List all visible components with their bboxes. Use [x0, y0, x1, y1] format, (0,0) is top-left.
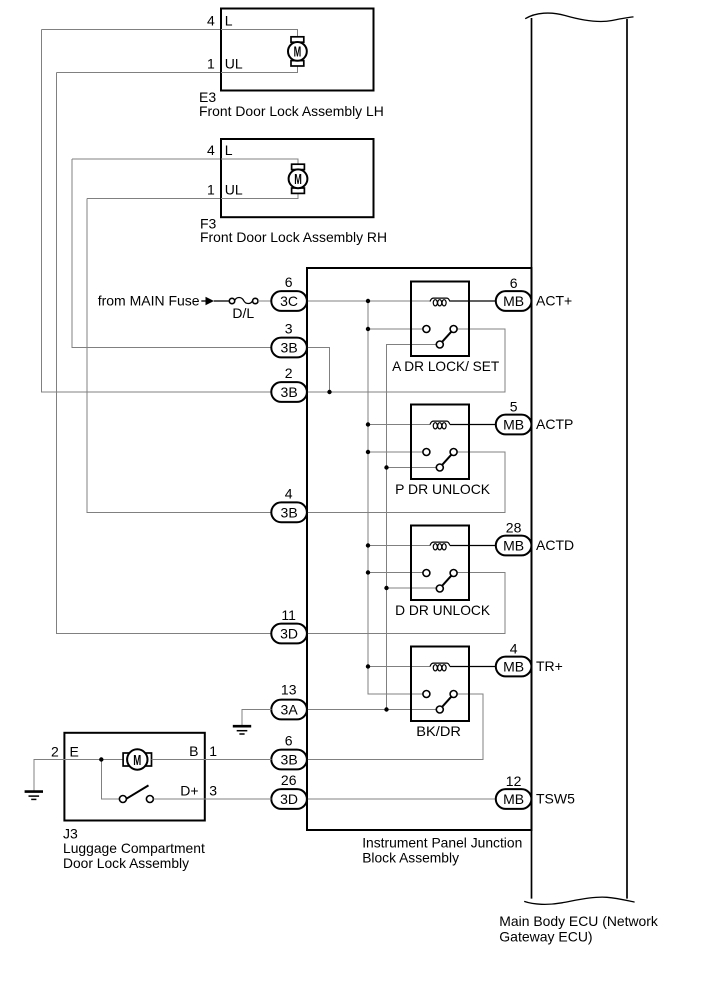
- wire net V4 vertical, F3-UL to 3B pin4 row: [87, 198, 271, 512]
- svg-text:28: 28: [506, 520, 522, 536]
- svg-text:4: 4: [285, 485, 293, 501]
- J3 switch contact right: [146, 796, 153, 803]
- wire net V1 vertical, E3-L to 3B pin2 row: [42, 30, 272, 393]
- relay A DR LOCK/SET box: [411, 282, 469, 357]
- svg-text:11: 11: [281, 607, 296, 623]
- relay D DR UNLOCK switch arm: [442, 576, 451, 586]
- J3 switch arm: [126, 785, 148, 798]
- relay P DR UNLOCK coil: [433, 423, 437, 429]
- connector 3B pin 3 oval: [271, 338, 307, 358]
- node bus vA / relay D coil junction dot: [366, 543, 370, 547]
- wire net V3 vertical, F3-L to 3B pin3 row: [72, 159, 271, 348]
- wire net V2 vertical, E3-UL to 3D pin11 row: [57, 72, 272, 633]
- connector MB pin 12 oval: [496, 789, 532, 809]
- wire F3 internal pin4 to motor top: [221, 159, 298, 164]
- svg-text:4: 4: [510, 641, 518, 657]
- relay P DR UNLOCK switch contact left: [423, 449, 430, 456]
- svg-text:ACTD: ACTD: [536, 537, 574, 553]
- svg-text:3A: 3A: [281, 702, 299, 718]
- motor J3 luggage door lock motor: [123, 753, 129, 766]
- wire 3B pin3 bend joining 3B pin2 row: [307, 348, 330, 393]
- svg-text:MB: MB: [503, 417, 524, 433]
- relay P DR UNLOCK switch common contact: [436, 464, 443, 471]
- wire stub vA to relay P left contact: [368, 451, 423, 453]
- svg-text:Instrument Panel Junction: Instrument Panel Junction: [362, 835, 522, 851]
- relay BK/DR switch contact left: [423, 691, 430, 698]
- fuse D/L right terminal: [253, 298, 258, 303]
- wire relay P coil to MB pin5 ACTP: [450, 424, 496, 426]
- wire stub vA to relay BK coil: [368, 666, 430, 668]
- svg-text:A DR LOCK/ SET: A DR LOCK/ SET: [392, 358, 500, 374]
- arrow from MAIN Fuse: [201, 300, 206, 302]
- wire stub vA to relay A left contact: [368, 328, 423, 330]
- node bus vA / relay A contact junction dot: [366, 327, 370, 331]
- svg-text:2: 2: [285, 365, 293, 381]
- wire F3 internal pin1 to motor bottom: [221, 194, 298, 199]
- wire bus vA vertical feeding coils and switch left contacts: [368, 301, 423, 694]
- svg-text:3C: 3C: [280, 293, 298, 309]
- Main Body ECU right edge: [626, 19, 628, 899]
- wire relay A common to bus vB: [387, 345, 437, 710]
- wire E3 internal pin1 to motor bottom: [221, 66, 297, 73]
- svg-text:Gateway ECU): Gateway ECU): [499, 929, 592, 945]
- svg-text:6: 6: [285, 733, 293, 749]
- svg-text:L: L: [225, 142, 233, 158]
- motor F3 door lock motor: [292, 164, 305, 169]
- node bus vB / relay D common junction dot: [384, 586, 388, 590]
- relay D DR UNLOCK box: [411, 526, 469, 601]
- wire 3A connector to ground: [242, 710, 271, 726]
- relay D DR UNLOCK switch contact left: [423, 570, 430, 577]
- relay BK/DR switch contact right: [450, 691, 457, 698]
- svg-text:3B: 3B: [281, 340, 298, 356]
- relay P DR UNLOCK box: [411, 405, 469, 480]
- connector MB pin 4 oval: [496, 657, 532, 677]
- node bus vA / relay P contact junction dot: [366, 450, 370, 454]
- svg-text:3D: 3D: [280, 791, 298, 807]
- wire relay BK coil to MB pin4 TR+: [450, 666, 496, 668]
- Main Body ECU wavy bottom edge: [524, 897, 634, 904]
- relay BK/DR box: [411, 647, 469, 722]
- node bus vA / relay D contact junction dot: [366, 570, 370, 574]
- svg-text:26: 26: [281, 772, 297, 788]
- relay BK/DR coil: [433, 665, 437, 671]
- svg-text:2: 2: [51, 744, 59, 760]
- svg-text:3B: 3B: [281, 752, 298, 768]
- wire stub vA to relay D left contact: [368, 572, 423, 574]
- wire 3C row: connector to relay A coil: [307, 300, 430, 302]
- ground at 3A pin13: [233, 725, 251, 728]
- svg-text:Main Body ECU (Network: Main Body ECU (Network: [499, 913, 659, 929]
- svg-text:M: M: [133, 753, 141, 769]
- svg-text:ACTP: ACTP: [536, 416, 573, 432]
- connector 3D pin 11 oval: [271, 624, 307, 644]
- wire stub vA to relay P coil: [368, 424, 430, 426]
- connector 3A pin 13 oval: [271, 700, 307, 720]
- wire J3 pin E to ground: [34, 760, 65, 792]
- node bus vB / 3A row junction dot: [384, 707, 388, 711]
- wire stub vA to relay D coil: [368, 545, 430, 547]
- node bus vB / relay P common junction dot: [384, 465, 388, 469]
- svg-text:1: 1: [207, 182, 215, 198]
- svg-text:1: 1: [207, 56, 215, 72]
- wire F3 pin4 L to net V3: [72, 158, 221, 160]
- J3 Luggage Compartment Door Lock Assembly box: [64, 733, 204, 821]
- wire 3A row: connector to relay BK common: [307, 709, 436, 711]
- wire relay D right contact to 3D pin11 row: [307, 573, 505, 634]
- wire stub vB to relay D common: [387, 587, 437, 589]
- relay A DR LOCK/SET switch contact right: [450, 326, 457, 333]
- svg-text:MB: MB: [503, 293, 524, 309]
- svg-text:B: B: [189, 743, 198, 759]
- svg-text:D DR UNLOCK: D DR UNLOCK: [395, 602, 491, 618]
- svg-text:M: M: [294, 44, 302, 60]
- connector 3B pin 4 oval: [271, 502, 307, 522]
- Main Body ECU wavy top edge: [525, 13, 633, 21]
- node 3B pin3 / 3B pin2 row junction dot: [327, 390, 331, 394]
- fuse D/L left terminal: [229, 298, 234, 303]
- svg-text:E: E: [70, 744, 79, 760]
- svg-text:6: 6: [285, 274, 293, 290]
- wire relay P right contact to 3B pin4 row: [307, 452, 505, 512]
- svg-text:3: 3: [285, 321, 293, 337]
- svg-text:ACT+: ACT+: [536, 293, 572, 309]
- wire stub vB to relay P common: [387, 467, 437, 469]
- E3 Front Door Lock Assembly LH box: [221, 9, 374, 91]
- Main Body ECU left edge: [531, 18, 533, 899]
- connector 3D pin 26 oval: [271, 789, 307, 809]
- wire J3 internal branch to switch: [101, 760, 119, 800]
- connector MB pin 6 oval: [496, 291, 532, 311]
- relay A DR LOCK/SET switch arm: [442, 332, 451, 342]
- svg-text:TR+: TR+: [536, 658, 563, 674]
- svg-text:M: M: [294, 172, 302, 188]
- svg-text:4: 4: [207, 13, 215, 29]
- connector MB pin 5 oval: [496, 415, 532, 435]
- svg-text:1: 1: [209, 743, 217, 759]
- motor E3 door lock motor: [291, 37, 304, 42]
- wire J3 internal pin E to motor: [64, 759, 123, 761]
- svg-text:4: 4: [207, 142, 215, 158]
- svg-text:Block Assembly: Block Assembly: [362, 850, 459, 866]
- svg-text:BK/DR: BK/DR: [416, 723, 461, 739]
- relay A DR LOCK/SET switch common contact: [436, 341, 443, 348]
- relay BK/DR switch arm: [442, 697, 451, 707]
- wire J3 internal motor to pin B: [152, 759, 205, 761]
- svg-text:D/L: D/L: [232, 305, 254, 321]
- relay D DR UNLOCK coil: [433, 544, 437, 550]
- svg-text:J3: J3: [63, 825, 78, 841]
- relay P DR UNLOCK switch arm: [442, 455, 451, 465]
- wire relay A right contact to 3B pin2 row: [307, 329, 505, 392]
- svg-text:Front Door Lock Assembly LH: Front Door Lock Assembly LH: [199, 103, 384, 119]
- svg-text:MB: MB: [503, 659, 524, 675]
- node 3C row / bus vA junction dot: [366, 299, 370, 303]
- svg-text:6: 6: [510, 275, 518, 291]
- wire E3 pin4 L to net V1: [42, 29, 222, 31]
- svg-text:Door Lock Assembly: Door Lock Assembly: [63, 855, 189, 871]
- connector 3C pin 6 oval: [271, 291, 307, 311]
- J3 switch contact left: [119, 796, 126, 803]
- svg-text:5: 5: [510, 399, 518, 415]
- fuse D/L element: [235, 298, 253, 304]
- relay D DR UNLOCK switch common contact: [436, 585, 443, 592]
- svg-text:UL: UL: [225, 56, 243, 72]
- relay A DR LOCK/SET coil: [433, 300, 437, 306]
- wire fuse to connector 3C: [258, 300, 271, 302]
- svg-text:3B: 3B: [281, 504, 298, 520]
- svg-text:UL: UL: [225, 182, 243, 198]
- node bus vA / relay BK coil junction dot: [366, 664, 370, 668]
- svg-text:3B: 3B: [281, 384, 298, 400]
- node J3 motor/switch branch junction dot: [99, 757, 103, 761]
- svg-text:3D: 3D: [280, 626, 298, 642]
- wire relay A coil to MB pin6 ACT+: [450, 300, 496, 302]
- relay D DR UNLOCK switch contact right: [450, 570, 457, 577]
- wire relay D coil to MB pin28 ACTD: [450, 545, 496, 547]
- svg-text:13: 13: [281, 682, 297, 698]
- relay P DR UNLOCK switch contact right: [450, 449, 457, 456]
- wire relay BK right contact to 3B pin6 row: [307, 694, 483, 760]
- wire E3 internal pin4 to motor top: [221, 30, 297, 38]
- svg-text:MB: MB: [503, 791, 524, 807]
- svg-text:3: 3: [209, 783, 217, 799]
- ground at J3 pin E: [25, 790, 43, 793]
- Instrument Panel Junction Block Assembly box: [307, 268, 532, 830]
- node bus vA / relay P coil junction dot: [366, 422, 370, 426]
- F3 Front Door Lock Assembly RH box: [221, 139, 374, 217]
- wire F3 pin1 UL to net V4: [87, 197, 221, 199]
- svg-text:MB: MB: [503, 538, 524, 554]
- svg-text:D+: D+: [180, 783, 198, 799]
- wire J3 pin D+ to connector 3D pin26: [205, 798, 271, 800]
- wire J3 internal switch to pin D+: [153, 798, 204, 800]
- wire arrow to fuse D/L: [214, 300, 230, 302]
- connector 3B pin 2 oval: [271, 382, 307, 402]
- relay A DR LOCK/SET switch contact left: [423, 326, 430, 333]
- wire J3 pin B to connector 3B pin6: [205, 759, 271, 761]
- svg-text:12: 12: [506, 773, 522, 789]
- svg-text:L: L: [225, 13, 233, 29]
- wire TSW5 row: 3D pin26 to MB pin12: [307, 798, 496, 800]
- connector MB pin 28 oval: [496, 536, 532, 556]
- svg-text:P DR UNLOCK: P DR UNLOCK: [395, 481, 491, 497]
- svg-text:Front Door Lock Assembly RH: Front Door Lock Assembly RH: [200, 229, 387, 245]
- connector 3B pin 6 oval: [271, 750, 307, 770]
- svg-text:from MAIN Fuse: from MAIN Fuse: [98, 293, 200, 309]
- svg-text:TSW5: TSW5: [536, 791, 575, 807]
- relay BK/DR switch common contact: [436, 706, 443, 713]
- wire E3 pin1 UL to net V2: [57, 71, 222, 73]
- svg-text:Luggage Compartment: Luggage Compartment: [63, 840, 205, 856]
